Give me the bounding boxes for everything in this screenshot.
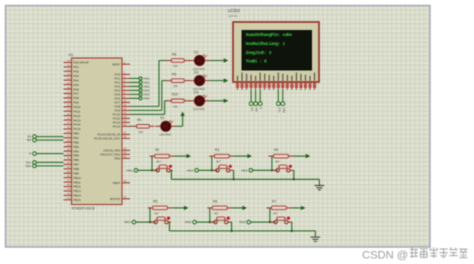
svg-text:KB16: KB16	[144, 96, 151, 100]
svg-text:PC13: PC13	[113, 125, 121, 129]
wire to terminal KB12	[130, 81, 139, 83]
svg-text:KB11: KB11	[144, 76, 151, 80]
svg-text:PA6: PA6	[73, 87, 79, 91]
power arrow up	[180, 112, 184, 127]
terminal KB11	[139, 76, 150, 80]
svg-text:4k7: 4k7	[156, 160, 161, 164]
svg-text:KB15: KB15	[241, 168, 248, 172]
wire KB13 to key 2	[198, 156, 217, 171]
svg-text:XuanZeShangPin: cake: XuanZeShangPin: cake	[246, 32, 293, 38]
svg-text:ZongJinE: 3: ZongJinE: 3	[246, 50, 272, 56]
power arrow	[234, 154, 252, 158]
svg-text:PA1: PA1	[73, 65, 79, 69]
wire to terminal KB14	[130, 89, 139, 91]
U1 right pins NRST, PC0-PC15, OSC, VBAT, BOOT0 with pin numbers	[94, 60, 130, 201]
svg-text:D3: D3	[194, 70, 198, 74]
wire LCD pin RS down	[250, 90, 252, 102]
svg-text:GouMaiShuLiang: 1: GouMaiShuLiang: 1	[246, 41, 286, 47]
svg-text:4k7: 4k7	[216, 160, 221, 164]
push button key 2	[212, 165, 233, 172]
terminal E	[258, 102, 263, 110]
svg-text:PB13: PB13	[73, 189, 81, 193]
wire to terminal KB15	[130, 93, 139, 95]
LED D4	[189, 91, 210, 112]
svg-text:RW: RW	[255, 108, 259, 113]
svg-text:PA11: PA11	[73, 109, 80, 113]
wire U1 PC7 to R8 row	[130, 61, 167, 107]
svg-text:PB2: PB2	[73, 140, 79, 144]
svg-text:4k7: 4k7	[154, 212, 159, 216]
svg-text:10k: 10k	[173, 64, 178, 68]
wire D1 to power arrow	[176, 125, 182, 127]
ground	[315, 179, 325, 190]
svg-text:R4: R4	[274, 148, 278, 152]
svg-text:R9: R9	[172, 72, 176, 76]
svg-text:PA8: PA8	[73, 96, 79, 100]
svg-text:PA3: PA3	[73, 74, 79, 78]
terminal KB16	[139, 96, 150, 100]
svg-text:PA2: PA2	[73, 70, 79, 74]
wire U1 PC9 to R10 row	[130, 101, 167, 115]
svg-text:SDA: SDA	[282, 108, 286, 114]
resistor R1	[130, 118, 154, 134]
wire LCD pin E down	[259, 90, 261, 102]
svg-text:KB13: KB13	[144, 84, 151, 88]
svg-text:R1: R1	[137, 118, 141, 122]
LCD LCD2 label	[228, 8, 240, 18]
LED D2	[189, 50, 210, 71]
svg-text:PA15: PA15	[73, 127, 80, 131]
svg-text:PA7: PA7	[73, 92, 79, 96]
svg-text:KB15: KB15	[144, 92, 151, 96]
wire U1 PC8 to R9 row	[130, 81, 167, 111]
terminal KB12	[139, 80, 150, 84]
svg-text:KB14: KB14	[124, 220, 131, 224]
svg-text:PC15-OSC32_OUT: PC15-OSC32_OUT	[94, 137, 121, 141]
resistor R2 pull-up	[150, 148, 175, 164]
terminal RS	[249, 102, 254, 112]
wire KB15 to key 3	[253, 156, 278, 171]
svg-text:4k7: 4k7	[273, 212, 278, 216]
svg-text:PA14: PA14	[73, 123, 80, 127]
svg-text:BOOT0: BOOT0	[110, 197, 121, 201]
push button key 3	[272, 165, 293, 172]
wire button to ground rail	[232, 170, 234, 180]
svg-text:KB13: KB13	[187, 168, 194, 172]
ground rail wire	[171, 178, 319, 180]
terminal E	[29, 152, 36, 156]
svg-text:R5: R5	[153, 200, 157, 204]
ground rail wire	[169, 230, 315, 232]
wire to terminal KB16	[130, 97, 139, 99]
LCD pins VSS..D7 with pin numbers	[236, 73, 317, 90]
LCD LCD2 body	[233, 22, 319, 82]
resistor R9	[166, 72, 189, 88]
resistor R3 pull-up	[209, 148, 234, 164]
resistor R6 pull-up	[207, 200, 232, 216]
terminal KB15	[139, 92, 150, 96]
svg-text:NRST: NRST	[112, 62, 120, 66]
svg-text:STM32F103C8: STM32F103C8	[72, 207, 95, 211]
svg-text:U1: U1	[69, 53, 74, 57]
svg-text:R8: R8	[172, 52, 176, 56]
svg-text:PB9: PB9	[73, 171, 79, 175]
wire LCD pin SCL down	[277, 90, 279, 102]
wire and power arrow	[210, 99, 228, 103]
svg-text:PB8: PB8	[73, 167, 79, 171]
svg-text:10k: 10k	[173, 104, 178, 108]
wire LCD pin RW down	[255, 90, 257, 102]
svg-text:LM044L: LM044L	[228, 14, 239, 18]
terminal KB14	[139, 88, 150, 92]
wire LCD pin SDA down	[282, 90, 284, 102]
microcontroller U1 STM32F103C8 body	[69, 53, 123, 210]
terminal KB14	[124, 220, 135, 224]
svg-text:PB7: PB7	[73, 163, 79, 167]
svg-text:LED-RED: LED-RED	[193, 107, 205, 111]
svg-text:KB14: KB14	[144, 88, 151, 92]
terminal SDA	[26, 164, 37, 168]
wire to left terminal SDA	[36, 165, 63, 167]
terminal KB18	[239, 220, 250, 224]
wire to left terminal RS	[36, 136, 63, 138]
svg-text:LED-RED: LED-RED	[159, 133, 171, 137]
svg-text:PA10: PA10	[73, 105, 80, 109]
svg-text:10k: 10k	[173, 84, 178, 88]
svg-text:SCL: SCL	[277, 108, 281, 114]
U1 left pins PA0-WKUP..PB15 with pin numbers	[64, 59, 89, 202]
svg-text:E: E	[29, 152, 31, 156]
power arrow	[293, 154, 310, 158]
wire to left terminal RW	[36, 139, 63, 141]
svg-text:PA4: PA4	[73, 78, 79, 82]
svg-text:R2: R2	[155, 148, 159, 152]
svg-text:KB16: KB16	[185, 220, 192, 224]
svg-text:10k: 10k	[138, 130, 143, 134]
svg-text:RS: RS	[250, 108, 254, 112]
svg-text:R6: R6	[213, 200, 217, 204]
push button key 2	[210, 217, 231, 224]
svg-text:PB12: PB12	[73, 185, 81, 189]
wire button to ground rail	[293, 170, 295, 180]
terminal SDA	[281, 102, 286, 113]
LED D3	[189, 70, 210, 91]
resistor R4 pull-up	[269, 148, 294, 164]
power arrow	[232, 206, 247, 210]
svg-text:SDA: SDA	[26, 164, 32, 168]
wire KB18 to key 3	[251, 208, 276, 223]
svg-text:R3: R3	[215, 148, 219, 152]
svg-text:KB12: KB12	[144, 80, 151, 84]
svg-text:PB10: PB10	[73, 176, 81, 180]
resistor R10	[166, 93, 189, 109]
ground	[311, 231, 321, 242]
terminal RW	[254, 102, 259, 113]
terminal SCL	[26, 160, 36, 164]
wire button to ground rail	[291, 222, 293, 232]
svg-text:4k7: 4k7	[214, 212, 219, 216]
svg-text:CSDN @: CSDN @	[362, 250, 408, 262]
svg-text:D4: D4	[194, 91, 198, 95]
wire KB16 to key 2	[196, 208, 215, 223]
svg-text:PB1: PB1	[73, 136, 79, 140]
wire button to ground rail	[169, 222, 170, 231]
svg-text:TouBi : 0: TouBi : 0	[246, 59, 267, 65]
svg-text:RW: RW	[27, 138, 32, 142]
resistor R7 pull-up	[267, 200, 292, 216]
svg-text:E: E	[259, 108, 263, 110]
push button key 1	[150, 217, 171, 224]
wire and power arrow	[210, 58, 228, 62]
svg-text:PB0: PB0	[73, 132, 79, 136]
wire to left terminal SCL	[36, 161, 63, 163]
LCD screen with text	[242, 30, 313, 71]
wire KB11 to key 1	[138, 156, 158, 171]
svg-text:PA9: PA9	[73, 101, 79, 105]
svg-text:PB6: PB6	[73, 158, 79, 162]
watermark CSDN	[362, 247, 468, 262]
terminal KB16	[185, 220, 196, 224]
svg-text:PB14: PB14	[73, 194, 81, 198]
svg-text:PA0-WKUP: PA0-WKUP	[73, 61, 88, 65]
svg-text:4k7: 4k7	[275, 160, 280, 164]
svg-text:R10: R10	[172, 93, 178, 97]
svg-text:LCD2: LCD2	[228, 8, 240, 13]
power arrow	[174, 154, 191, 158]
wire to terminal KB11	[130, 77, 139, 79]
svg-text:PB5: PB5	[73, 154, 79, 158]
wire to terminal KB13	[130, 85, 139, 87]
resistor R5 pull-up	[148, 200, 173, 216]
svg-text:PD2: PD2	[114, 157, 120, 161]
wire button to ground rail	[171, 170, 172, 179]
terminal KB15	[241, 168, 252, 172]
power arrow	[172, 206, 188, 210]
push button key 1	[152, 165, 173, 172]
svg-text:D2: D2	[194, 50, 198, 54]
wire button to ground rail	[230, 222, 232, 232]
svg-text:PB11: PB11	[73, 180, 80, 184]
svg-text:PA12: PA12	[73, 114, 80, 118]
svg-text:PA5: PA5	[73, 83, 79, 87]
svg-text:KB18: KB18	[239, 220, 246, 224]
svg-text:VBAT: VBAT	[113, 181, 121, 185]
svg-text:PA13: PA13	[73, 118, 80, 122]
wire to left terminal E	[36, 153, 63, 155]
terminal RS	[27, 135, 36, 139]
resistor R8	[166, 52, 189, 68]
svg-text:PB4: PB4	[73, 149, 79, 153]
terminal RW	[27, 138, 37, 142]
svg-text:PB15: PB15	[73, 198, 81, 202]
svg-text:R7: R7	[272, 200, 276, 204]
terminal SCL	[276, 102, 281, 113]
terminal KB11	[127, 168, 138, 172]
svg-text:PB3: PB3	[73, 145, 79, 149]
power arrow	[291, 206, 305, 210]
wire KB14 to key 1	[136, 208, 156, 223]
svg-text:KB11: KB11	[127, 168, 134, 172]
LED D1	[155, 116, 176, 137]
push button key 3	[270, 217, 291, 224]
terminal KB13	[139, 84, 150, 88]
terminal KB13	[187, 168, 198, 172]
wire and power arrow	[210, 78, 228, 82]
svg-text:D1: D1	[160, 116, 164, 120]
